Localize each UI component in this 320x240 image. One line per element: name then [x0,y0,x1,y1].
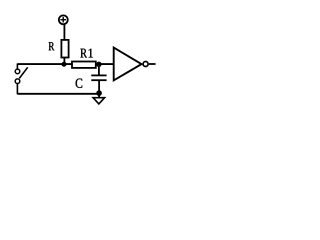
label R1 [80,49,87,58]
wire capacitor to node C [98,81,100,94]
resistor R [61,40,68,58]
power supply V+ [59,15,68,24]
ground [93,93,105,104]
resistor R1 [72,62,96,68]
label C [76,79,83,88]
node A junction dot [62,62,67,67]
wire from R to node A [63,58,65,65]
wire node B down to capacitor [98,64,100,74]
capacitor C [91,75,106,80]
node C junction dot [96,90,102,96]
wire top rail [17,63,113,65]
wire from supply to R [63,24,65,40]
switch S1 [15,64,28,95]
inverter U1 [114,48,156,81]
wire bottom rail [17,93,99,95]
node B junction dot [96,62,101,67]
label R [49,42,55,50]
